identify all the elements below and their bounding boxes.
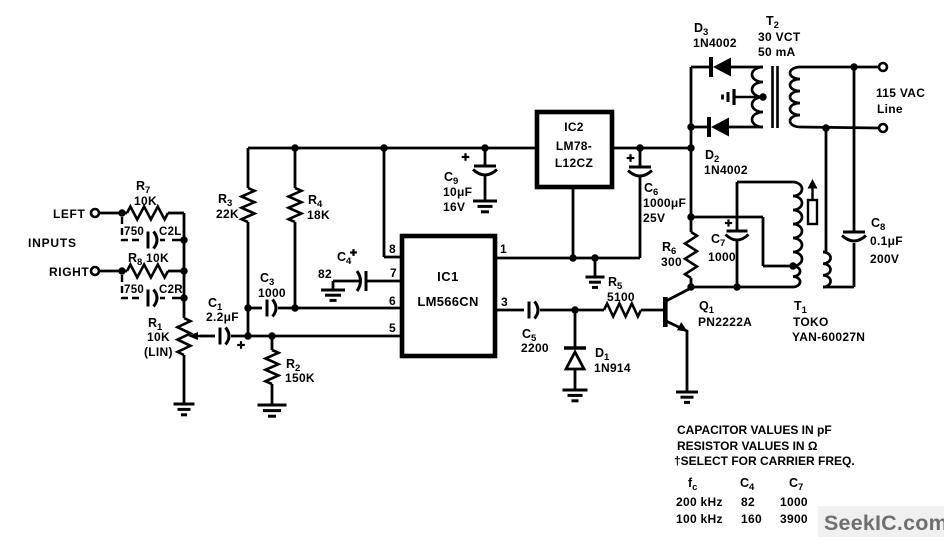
node pin5 junction <box>244 332 251 339</box>
resistor 750 (left) and capacitor C2L <box>122 217 184 249</box>
svg-text:750: 750 <box>124 284 144 296</box>
node C9 top <box>481 144 488 151</box>
svg-text:18K: 18K <box>307 208 330 222</box>
svg-text:TOKO: TOKO <box>793 315 829 329</box>
text notes <box>674 423 855 468</box>
wire node rail to T1 tap <box>691 217 793 266</box>
svg-text:SeekIC.com: SeekIC.com <box>824 511 944 535</box>
wire collector rail <box>691 286 793 289</box>
wire T1 secondary feed <box>823 128 826 252</box>
node D2 junction <box>687 123 694 130</box>
T1 tuning slug <box>808 179 818 224</box>
svg-text:10μF: 10μF <box>443 185 472 199</box>
text table row 100kHz <box>676 512 808 526</box>
svg-text:C2L: C2L <box>159 226 182 238</box>
ground under Q1 <box>676 392 698 402</box>
svg-text:5100: 5100 <box>607 290 635 304</box>
diode D2 <box>691 117 763 177</box>
wire C1 to pin5 node <box>231 335 248 338</box>
node C6 top <box>636 144 643 151</box>
svg-text:0.1μF: 0.1μF <box>870 234 903 248</box>
text T1 labels <box>792 299 865 344</box>
svg-text:5: 5 <box>389 321 396 335</box>
wire T1 top link <box>737 181 793 184</box>
svg-text:1N914: 1N914 <box>594 361 631 375</box>
svg-text:2200: 2200 <box>521 341 549 355</box>
T2 center tap to ground <box>723 89 767 105</box>
wire 12V rail <box>248 147 537 150</box>
wire pin6 line <box>295 307 402 310</box>
svg-text:IC2: IC2 <box>564 120 584 134</box>
wire IC2 output rail <box>612 147 691 150</box>
wire mixer node to R1 <box>183 298 186 318</box>
text pin 7 <box>390 266 397 280</box>
svg-text:160: 160 <box>741 512 762 526</box>
wire AC line top <box>800 66 879 69</box>
wire C5 to node <box>540 309 575 312</box>
svg-text:1N4002: 1N4002 <box>704 163 748 177</box>
svg-text:100 kHz: 100 kHz <box>676 512 723 526</box>
resistor R8 <box>127 251 169 278</box>
text INPUTS label <box>28 236 77 250</box>
svg-text:LEFT: LEFT <box>53 207 85 221</box>
resistor R2 <box>266 336 315 404</box>
capacitor C1 <box>206 296 245 349</box>
capacitor C5 <box>521 302 549 356</box>
svg-text:30 VCT: 30 VCT <box>758 30 801 44</box>
diode D1 <box>564 310 631 389</box>
resistor 750 (right) and capacitor C2R <box>122 275 184 307</box>
svg-text:C2R: C2R <box>159 284 183 296</box>
input terminal RIGHT <box>91 267 99 275</box>
terminal AC bottom <box>879 124 887 132</box>
wire pin3 to C5 <box>495 309 524 312</box>
text pin 6 <box>389 294 396 308</box>
resistor R4 <box>289 148 330 308</box>
svg-text:200 kHz: 200 kHz <box>676 495 723 509</box>
svg-text:3: 3 <box>501 295 508 309</box>
svg-text:2.2μF: 2.2μF <box>206 310 239 324</box>
resistor R6 <box>661 232 697 287</box>
text 115 VAC Line <box>876 86 925 116</box>
wire R7 to mixer column <box>168 213 184 240</box>
wire T1 secondary bottom <box>823 286 854 289</box>
node R2 top <box>268 332 275 339</box>
node Q1 collector <box>687 283 694 290</box>
text table header <box>688 476 803 493</box>
transformer T2 secondary winding <box>752 67 763 127</box>
text pin 8 <box>389 242 396 256</box>
ground under R1 <box>174 404 195 415</box>
svg-text:10K: 10K <box>147 330 170 344</box>
resistor R5 <box>604 275 641 317</box>
svg-text:10K: 10K <box>134 194 157 208</box>
svg-text:300: 300 <box>661 255 682 269</box>
node C7 bottom <box>733 283 740 290</box>
svg-text:82: 82 <box>318 267 332 281</box>
wire pin5 line <box>248 335 402 338</box>
svg-text:10K: 10K <box>146 251 169 265</box>
svg-text:1000: 1000 <box>708 250 736 264</box>
svg-text:6: 6 <box>389 294 396 308</box>
svg-text:1000μF: 1000μF <box>643 196 686 210</box>
svg-text:150K: 150K <box>285 371 315 385</box>
node AC top junction <box>850 63 857 70</box>
ground under C9 <box>473 201 497 212</box>
svg-text:IC1: IC1 <box>437 269 459 284</box>
wire IC2 ground stem <box>569 187 576 262</box>
node D1 top <box>571 306 578 313</box>
input terminal LEFT <box>91 209 99 217</box>
ground on rail <box>586 254 605 287</box>
text pin 3 <box>501 295 508 309</box>
watermark SeekIC.com <box>818 506 944 537</box>
wire C4 to pin7 <box>366 280 402 283</box>
wire R1 to ground <box>183 355 186 403</box>
capacitor C7 <box>708 182 749 287</box>
node AC bottom junction <box>822 124 829 131</box>
capacitor C3 <box>248 271 295 317</box>
transformer T2 primary winding <box>790 67 800 127</box>
wire ground to C4 <box>333 280 359 283</box>
text pin 1 <box>500 242 507 256</box>
capacitor C4 <box>318 249 366 291</box>
svg-text:PN2222A: PN2222A <box>698 315 752 329</box>
text pin 5 <box>389 321 396 335</box>
ground at C4 <box>321 281 345 300</box>
capacitor C6 <box>627 148 686 258</box>
svg-text:82: 82 <box>741 495 755 509</box>
ground under D1 <box>563 390 588 401</box>
transformer T1 primary winding <box>793 182 802 287</box>
diode D3 <box>691 21 763 77</box>
wire pin8 elbow <box>384 148 402 257</box>
transistor Q1 PN2222A <box>663 288 752 391</box>
svg-text:1: 1 <box>500 242 507 256</box>
node C3 right junction <box>291 304 298 311</box>
svg-text:INPUTS: INPUTS <box>28 236 77 250</box>
text RIGHT input label <box>49 265 89 279</box>
wire node to R5 <box>575 309 604 312</box>
node C3 left junction <box>244 304 251 311</box>
regulator IC2 LM78L12 box <box>537 112 612 187</box>
op-amp U1 IC1 LM566CN box <box>402 236 495 356</box>
svg-text:115 VAC: 115 VAC <box>876 86 925 100</box>
svg-text:22K: 22K <box>216 207 239 221</box>
svg-text:8: 8 <box>389 242 396 256</box>
svg-text:7: 7 <box>390 266 397 280</box>
node C2L junction <box>180 236 187 243</box>
wire R1 wiper to C1 <box>200 335 215 338</box>
wire ground rail <box>495 257 640 260</box>
svg-text:RESISTOR VALUES IN Ω: RESISTOR VALUES IN Ω <box>677 439 818 453</box>
resistor R7 <box>127 179 168 220</box>
svg-text:200V: 200V <box>870 252 899 266</box>
text table row 200kHz <box>676 495 808 509</box>
svg-text:LM78-: LM78- <box>556 139 592 153</box>
svg-text:Line: Line <box>877 102 903 116</box>
node R6 top junction <box>687 213 694 220</box>
node T1 tap <box>789 262 796 269</box>
wire R5 to Q1 base <box>641 309 663 312</box>
svg-text:RIGHT: RIGHT <box>49 265 89 279</box>
resistor R3 <box>216 148 255 308</box>
wire pin5 node vertical <box>247 308 250 336</box>
svg-text:†SELECT FOR CARRIER FREQ.: †SELECT FOR CARRIER FREQ. <box>674 454 855 468</box>
wire R8 to mixer column <box>168 240 188 275</box>
svg-text:LM566CN: LM566CN <box>417 294 478 309</box>
svg-text:YAN-60027N: YAN-60027N <box>792 330 865 344</box>
node C2R junction <box>180 271 187 302</box>
node pin8 drop <box>380 144 387 151</box>
svg-text:CAPACITOR VALUES IN pF: CAPACITOR VALUES IN pF <box>677 423 832 437</box>
svg-text:750: 750 <box>124 226 144 238</box>
capacitor C9 <box>443 148 497 214</box>
node 12V input junction <box>687 144 694 151</box>
node R4 top <box>291 144 298 151</box>
transformer T1 secondary winding <box>823 252 831 287</box>
svg-text:L12CZ: L12CZ <box>555 156 593 170</box>
terminal AC top <box>879 63 887 71</box>
transformer T2 core <box>773 66 778 128</box>
svg-text:25V: 25V <box>643 211 665 225</box>
svg-text:16V: 16V <box>443 200 465 214</box>
svg-text:1000: 1000 <box>780 495 808 509</box>
capacitor C8 <box>842 67 903 287</box>
ground under R2 <box>258 405 287 416</box>
text T2 labels <box>758 14 801 59</box>
svg-text:50 mA: 50 mA <box>758 45 796 59</box>
wire DC column <box>690 67 693 232</box>
text LEFT input label <box>53 207 85 221</box>
svg-text:1000: 1000 <box>258 286 286 300</box>
wire LEFT input to node <box>99 209 127 216</box>
wire RIGHT input to node <box>99 267 127 274</box>
potentiometer R1 <box>144 316 203 359</box>
svg-text:3900: 3900 <box>780 512 808 526</box>
svg-text:1N4002: 1N4002 <box>693 36 737 50</box>
wire AC line bottom <box>800 127 879 128</box>
svg-text:(LIN): (LIN) <box>144 345 173 359</box>
